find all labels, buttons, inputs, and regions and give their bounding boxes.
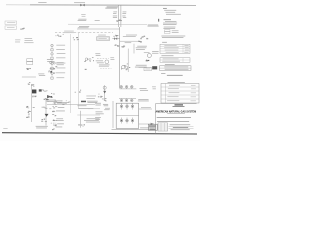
svg-text:AMERICAN NATURAL GAS SYSTEM: AMERICAN NATURAL GAS SYSTEM	[156, 110, 197, 114]
